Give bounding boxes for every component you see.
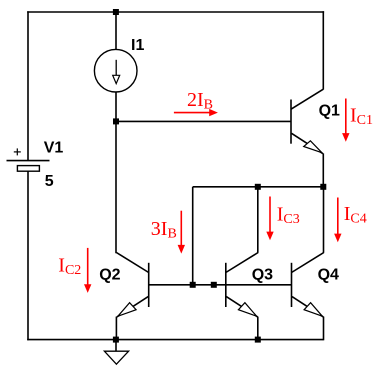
- node Q1 emitter junction: [320, 184, 326, 190]
- svg-text:I1: I1: [131, 37, 144, 54]
- svg-text:IC4: IC4: [344, 203, 367, 227]
- svg-text:V1: V1: [44, 140, 64, 157]
- wire Q4 emitter lead: [323, 317, 325, 341]
- current arrow 3IB: [180, 211, 182, 247]
- svg-text:5: 5: [45, 173, 54, 190]
- wire Q3 collector drop: [257, 187, 259, 253]
- wire Q2 emitter lead: [115, 317, 117, 341]
- current arrow IC1: [345, 99, 347, 135]
- current arrow IC2: [87, 248, 89, 286]
- node ground junction: [113, 337, 119, 343]
- current arrow IC4: [337, 198, 339, 236]
- node Q1 base junction: [113, 118, 119, 124]
- transistor Q4: [292, 253, 324, 317]
- wire Q1 base rail: [116, 120, 291, 122]
- transistor Q2: [116, 253, 148, 317]
- current arrow IC3: [269, 197, 271, 234]
- transistor Q2 emitter arrowhead: [118, 303, 136, 317]
- svg-text:Q4: Q4: [318, 267, 339, 284]
- wire top rail: [27, 11, 324, 13]
- wire middle rail: [193, 186, 324, 188]
- svg-text:Q2: Q2: [99, 267, 120, 284]
- wire Q1 collector lead: [322, 11, 324, 89]
- battery V1 negative plate: [17, 166, 39, 172]
- svg-text:IC1: IC1: [350, 105, 373, 129]
- svg-text:IC2: IC2: [58, 254, 81, 278]
- wire left side lower: [27, 171, 29, 340]
- node Q3 emitter junction: [255, 337, 261, 343]
- ground: [115, 340, 117, 352]
- wire middle rail left drop: [192, 187, 194, 286]
- node base rail left junction: [190, 282, 196, 288]
- wire Q4 collector lead: [323, 187, 325, 253]
- svg-text:Q3: Q3: [252, 267, 273, 284]
- wire Q1 emitter lead: [322, 153, 324, 187]
- wire I1 top lead: [115, 12, 117, 50]
- wire left side upper: [27, 11, 29, 160]
- svg-text:IC3: IC3: [277, 204, 300, 228]
- node top I1 junction: [113, 9, 119, 15]
- transistor Q3: [226, 253, 258, 317]
- wire bottom rail: [27, 339, 323, 341]
- current source I1 circle: [94, 49, 137, 92]
- wire I1 bottom lead: [115, 92, 117, 122]
- transistor Q1 emitter arrowhead: [304, 141, 322, 153]
- node base rail second junction: [211, 282, 217, 288]
- current arrow 2IB: [174, 112, 211, 114]
- battery V1 positive plate: [7, 160, 50, 162]
- svg-text:3IB: 3IB: [151, 218, 177, 242]
- transistor Q4 emitter arrowhead: [304, 303, 322, 317]
- svg-text:2IB: 2IB: [187, 89, 213, 113]
- wire Q2 collector drop: [115, 121, 117, 253]
- wire bottom base rail: [149, 284, 292, 286]
- wire Q3 emitter lead: [257, 317, 259, 341]
- transistor Q1: [291, 89, 323, 153]
- current source I1 arrow: [115, 60, 117, 76]
- battery plus sign: [14, 148, 21, 155]
- node Q3 collector junction: [255, 184, 261, 190]
- transistor Q3 emitter arrowhead: [238, 303, 256, 317]
- svg-text:Q1: Q1: [319, 103, 340, 120]
